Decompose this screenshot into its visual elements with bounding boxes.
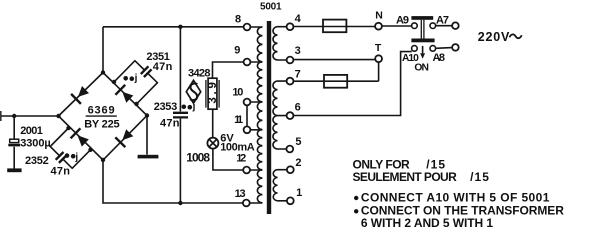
node: bridge bottom [101, 158, 105, 162]
transformer right winding coil 4-3 [273, 27, 278, 60]
diode lower-left arm: triangle [78, 135, 89, 146]
line terminal lower [452, 44, 459, 51]
svg-text:CONNECT A10 WITH 5 OF 5001: CONNECT A10 WITH 5 OF 5001 [361, 191, 550, 205]
diode lower-left arm: cathode bar [71, 128, 81, 138]
diode upper-left arm: cathode bar [71, 94, 81, 104]
resistor 3428 outer side lines [206, 80, 219, 108]
wire: bridge right node down to ground [146, 116, 148, 155]
svg-text:1008: 1008 [186, 151, 210, 165]
svg-text:220V: 220V [478, 30, 510, 44]
svg-text:A9: A9 [396, 15, 409, 27]
wire: pin 4 to fuse and N terminal [293, 26, 375, 28]
diode upper-left arm: triangle [78, 86, 89, 97]
switch bottom bar [411, 39, 434, 43]
svg-text:6 WITH 2 AND 5 WITH 1: 6 WITH 2 AND 5 WITH 1 [361, 216, 494, 230]
svg-text:j: j [192, 102, 196, 113]
transformer right pin 1 [287, 197, 294, 204]
node: bridge right [145, 113, 149, 117]
svg-text:3428: 3428 [188, 68, 211, 80]
bullet 1 [354, 196, 358, 200]
terminal N [375, 23, 382, 30]
capacitor C2352 loop under lower-left diode [50, 128, 90, 168]
svg-text:10: 10 [232, 87, 243, 99]
svg-text:A7: A7 [436, 15, 449, 27]
marking dots for 2351 [123, 76, 128, 81]
svg-text:6: 6 [295, 102, 301, 114]
capacitor C2353 plates [173, 113, 188, 118]
switch top bar [411, 16, 433, 20]
switch contact A9 [412, 23, 418, 29]
capacitor C2001 negative plate (solid) [8, 144, 20, 147]
switch contact A10 [412, 46, 418, 52]
marking dots for 2352 [65, 153, 70, 158]
svg-text:7: 7 [295, 68, 301, 80]
wire: resistor to lamp [212, 109, 214, 137]
line terminal upper [452, 22, 459, 29]
diode lower-right arm: triangle [122, 129, 133, 140]
wire: 2353 branch vertical lower [179, 119, 181, 203]
node: C2351 upper attach [112, 80, 116, 84]
transformer right pin 4 [287, 23, 294, 30]
node: tap for reservoir capacitor 2001 [12, 114, 16, 118]
switch contact A7 [430, 23, 436, 29]
svg-text:2352: 2352 [25, 155, 49, 167]
wire: pin 6 to switch contact A10 [293, 52, 411, 116]
wire: T down to fuse row [378, 62, 380, 81]
transformer 5001 core [267, 21, 271, 214]
svg-text:3: 3 [295, 45, 301, 57]
svg-text:SEULEMENT POUR: SEULEMENT POUR [353, 170, 458, 184]
svg-text:5: 5 [295, 136, 301, 148]
fuse lower [324, 75, 347, 88]
left edge scan mark [0, 111, 2, 121]
underline 6369 [86, 115, 117, 117]
capacitor C2351 loop over upper-right diode [114, 61, 157, 104]
node: C2351 lower attach [134, 102, 138, 106]
transformer right pin 7 [287, 78, 294, 85]
node: C2352 lower attach [88, 148, 92, 152]
svg-text:9: 9 [234, 45, 240, 57]
lamp 1008 circle [207, 138, 218, 149]
transformer left pin 12 [243, 167, 250, 174]
svg-text:BY 225: BY 225 [84, 119, 119, 131]
wire: top rail from corner to transformer pin 8 [103, 26, 244, 28]
ground under C2001 [7, 168, 21, 172]
svg-text:47n: 47n [153, 61, 173, 73]
capacitor C2001 leads [13, 116, 15, 169]
switch actuator link [421, 20, 424, 39]
transformer right pin 6 [287, 112, 294, 119]
wire: pin 3 to T terminal [293, 59, 375, 61]
transformer left pin 13 [243, 200, 250, 207]
svg-text:11: 11 [234, 114, 243, 126]
terminal T [375, 55, 382, 62]
svg-text:T: T [375, 42, 382, 54]
svg-text:N: N [375, 10, 383, 22]
capacitor C2352 plates [56, 152, 67, 163]
svg-text:8: 8 [235, 13, 241, 25]
fuse upper [323, 20, 346, 33]
diode lower-right arm: cathode bar [115, 137, 125, 147]
tilde of 220V [510, 34, 522, 38]
svg-text:2: 2 [295, 157, 301, 169]
node: junction on top rail (2353 branch tap) [178, 25, 182, 29]
manufacturer diamond logo 3428 [186, 80, 200, 103]
transformer right winding coil 7-6-5 [273, 81, 278, 149]
switch contact A8 [430, 46, 436, 52]
node: junction bottom rail / 2353 branch [178, 201, 182, 205]
transformer right winding coil 2-1 [273, 170, 277, 201]
transformer left winding stubs [250, 27, 262, 203]
capacitor C2001 positive plate (hollow) [10, 139, 19, 142]
marking dots for 2353 [182, 105, 187, 110]
wire: A8 to line terminal [436, 47, 453, 50]
svg-text:6369: 6369 [88, 105, 115, 117]
svg-text:47n: 47n [160, 118, 180, 130]
bullet 2 [354, 209, 358, 213]
diode upper-right arm: triangle [122, 92, 133, 103]
svg-text:3300µ: 3300µ [20, 137, 51, 149]
svg-text:2001: 2001 [20, 125, 43, 137]
wire: 2353 branch vertical upper [179, 27, 181, 112]
wire: N to switch contact A9 [382, 25, 412, 27]
svg-text:j: j [134, 73, 138, 84]
transformer right pin 3 [287, 57, 294, 64]
wire: strap between pins 10 and 11 [246, 105, 248, 126]
lamp 1008 cross [209, 139, 217, 147]
svg-text:5001: 5001 [260, 1, 282, 12]
svg-text:47n: 47n [51, 166, 71, 178]
transformer right pin 2 [287, 166, 294, 173]
transformer left pin 11 [244, 126, 251, 133]
svg-text:ON: ON [414, 63, 429, 74]
transformer right winding stubs [278, 27, 287, 201]
svg-text:13: 13 [235, 188, 246, 200]
wire: A7 to line terminal [436, 25, 453, 27]
transformer left pin 9 [244, 59, 251, 66]
svg-text:2353: 2353 [154, 101, 178, 113]
svg-text:A8: A8 [433, 52, 446, 64]
ground under bridge right node [138, 155, 159, 159]
wire: pin 9 to resistor 3428 branch [213, 62, 244, 78]
svg-text:12: 12 [236, 153, 246, 165]
node: bridge top [101, 70, 105, 74]
transformer left pin 8 [244, 24, 251, 31]
node: bridge left [56, 114, 60, 118]
svg-text:100mA: 100mA [220, 142, 255, 154]
capacitor C2351 plates [141, 66, 152, 77]
bridge rectifier 6369 BY225 diamond arms [59, 73, 148, 161]
svg-text:4: 4 [295, 13, 302, 25]
node: C2352 upper attach [66, 126, 70, 130]
diode upper-right arm: cathode bar [115, 85, 125, 95]
transformer left pin 10 [244, 99, 251, 106]
wire: lamp to pin 12 [213, 149, 243, 170]
resistor 3428 (3.9) body [208, 78, 217, 109]
transformer right pin 5 [286, 146, 293, 153]
wire: pin 7 through fuse to T branch [293, 80, 378, 82]
transformer left winding coil [257, 27, 262, 203]
switch ON arrow [422, 46, 424, 53]
wire: left vertical from top rail down to bridge top node [102, 27, 104, 73]
svg-text:j: j [74, 152, 78, 163]
wire: AC input from left edge to bridge left node [0, 115, 59, 117]
wire: bridge bottom node down and bottom rail to pin 13 [103, 160, 243, 203]
svg-text:3.9: 3.9 [207, 82, 219, 104]
svg-text:1: 1 [296, 187, 302, 199]
svg-text:/15: /15 [470, 170, 489, 184]
